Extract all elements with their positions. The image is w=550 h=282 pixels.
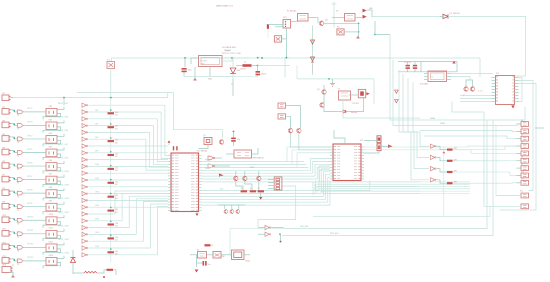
svg-text:10k: 10k [115, 181, 118, 183]
wire signal line 10 [88, 165, 168, 167]
wire JP10 out [11, 218, 17, 220]
svg-text:74: 74 [17, 142, 19, 144]
svg-text:JP14: JP14 [2, 265, 6, 267]
svg-text:CH2: CH2 [95, 110, 98, 112]
connector JP12 [2, 244, 9, 250]
svg-text:10k: 10k [115, 167, 118, 169]
resistor R4 [108, 154, 115, 156]
connector X10 right [521, 173, 529, 178]
svg-text:4k7: 4k7 [115, 128, 118, 130]
svg-text:JP3: JP3 [2, 120, 5, 122]
connector SV1 3-pin [283, 20, 291, 29]
gate G7a [17, 178, 22, 182]
svg-text:X11: X11 [521, 179, 524, 181]
wire opto OK10 output right [58, 215, 65, 218]
wire signal line 23 [88, 254, 157, 256]
wire long right verticals x484-493 [483, 112, 485, 205]
transistor Q4 [319, 21, 323, 25]
resistor R8 [108, 210, 115, 212]
resistor R20 [241, 190, 248, 192]
wire K2 bottom down to junction [374, 21, 376, 35]
svg-text:4k7: 4k7 [115, 170, 118, 172]
wire long y216 to X13 [313, 206, 490, 216]
svg-text:SW: SW [222, 256, 225, 258]
resistor RR3 [447, 171, 453, 173]
svg-text:4k7: 4k7 [115, 198, 118, 200]
wire opto OK12 output right [58, 242, 65, 245]
connector JP14 bottom [2, 267, 11, 273]
wire gate to opto OK5 [24, 152, 46, 154]
wire transistors up [466, 80, 473, 86]
wire junction to right [375, 34, 390, 36]
gate G2a [17, 110, 22, 114]
wire gate to opto OK6 [24, 165, 46, 167]
wire opto OK8 return loop [43, 195, 61, 201]
svg-text:INPUT_CH23: INPUT_CH23 [58, 253, 69, 255]
capacitor C12 [406, 65, 410, 67]
crystal Y1 box [204, 138, 212, 145]
wire rail to regulator right [222, 57, 290, 59]
svg-text:OK7: OK7 [49, 174, 53, 176]
ground below S2 area [356, 35, 360, 38]
svg-text:JP11: JP11 [2, 229, 6, 231]
gate E1 bottom [265, 225, 269, 229]
svg-text:OK5: OK5 [49, 146, 53, 148]
svg-text:X2: X2 [12, 265, 14, 267]
wires transistors to resistors [236, 181, 243, 190]
svg-text:OPTO6: OPTO6 [27, 162, 32, 164]
svg-text:GND_BUS: GND_BUS [300, 226, 309, 228]
svg-text:CH6: CH6 [95, 137, 98, 139]
buffer gate B17 [82, 212, 86, 216]
wire crystal down [199, 145, 209, 149]
resistor RR2 [447, 160, 453, 162]
wire connector X4 stub [517, 130, 521, 132]
IC4 left pins [492, 77, 496, 79]
wire module loop [324, 94, 337, 112]
wire right drop x480 [479, 58, 481, 77]
connector X3 right [521, 122, 529, 127]
wire connector X8 stub [517, 160, 521, 162]
box S4 with X [274, 36, 281, 42]
connector JP6 [2, 163, 9, 169]
wire opto OK3 return loop [43, 127, 61, 133]
svg-text:JP5: JP5 [2, 147, 5, 149]
wire IC3 to DIP [451, 77, 470, 81]
wire QB down [299, 133, 330, 150]
svg-text:4k7: 4k7 [115, 254, 118, 256]
gnd arrow below IC4 [511, 106, 515, 109]
antenna/gnd symbol [330, 83, 335, 86]
svg-text:X4: X4 [521, 127, 523, 129]
IC1 left pins [168, 155, 171, 157]
svg-text:OPTO9: OPTO9 [27, 203, 32, 205]
wire gate to opto OK10 [24, 219, 46, 221]
svg-text:INPUT_CH3: INPUT_CH3 [58, 117, 68, 119]
diode D4 arrow [343, 110, 346, 113]
wire J2 drop down west [258, 186, 296, 228]
svg-text:CH22: CH22 [95, 246, 99, 248]
wires header left [268, 179, 274, 181]
gate G12a [17, 245, 22, 249]
wire JP5 out [11, 151, 17, 153]
wire bus jog up to IC2 top pins [287, 147, 330, 162]
capacitor C10 electrolytic [256, 71, 261, 73]
wire rail corner down right [285, 57, 480, 59]
wire opto OK2 output right [58, 107, 65, 110]
svg-text:INPUT_CH9: INPUT_CH9 [58, 157, 68, 159]
vcc diode bottom D6 [71, 258, 76, 263]
wire gate D4 out [437, 180, 447, 183]
resistor R2 [108, 126, 115, 128]
svg-text:JP4: JP4 [2, 134, 5, 136]
gate G8a [17, 191, 22, 195]
wire resistor RR1 to connector [453, 149, 506, 151]
svg-text:RESONATOR: RESONATOR [253, 157, 265, 160]
svg-text:74: 74 [17, 196, 19, 198]
wire JP8 out [11, 191, 17, 193]
wire bottom rail 1 [230, 228, 284, 230]
connector X13 right lower2 [521, 204, 529, 209]
svg-text:OPTO3: OPTO3 [27, 122, 32, 124]
wire regulator bottom to gnd [209, 67, 211, 77]
red arrow right of pullups [388, 145, 393, 149]
svg-text:IN OUT: IN OUT [201, 61, 209, 63]
svg-text:JP8: JP8 [2, 188, 5, 190]
transistor T3 mid [243, 176, 247, 180]
wire opto OK9 return loop [43, 208, 61, 214]
gate G11a [17, 232, 22, 236]
wire top rail right segment [258, 65, 291, 67]
connector JP10 [2, 217, 9, 223]
gnd arrow below resistors [259, 197, 262, 200]
svg-text:4k7: 4k7 [115, 184, 118, 186]
svg-text:INPUT_CH17: INPUT_CH17 [58, 212, 69, 214]
connector X11 right [521, 180, 529, 185]
wire gates A out [215, 157, 222, 159]
wire JP7 out [11, 178, 17, 180]
wire signal line 20 [88, 233, 136, 235]
wire signal line 17 [88, 213, 115, 215]
connector JP2 [2, 109, 9, 115]
wire opto OK7 return loop [43, 181, 61, 187]
inductor L1 filled [243, 64, 252, 67]
wire F3 east stub [244, 254, 250, 256]
svg-text:OK3: OK3 [49, 119, 53, 121]
wire opto OK5 output right [58, 148, 65, 151]
capacitor C18 above IC1 [176, 146, 177, 150]
wire opto OK7 output right [58, 175, 65, 178]
svg-text:K1 RELAY: K1 RELAY [287, 10, 297, 13]
optocoupler OK9 [46, 203, 57, 211]
transistor T4 mid [257, 176, 261, 180]
svg-text:1k: 1k [250, 188, 252, 190]
wire JP12 out [11, 245, 17, 247]
wire JP6 out [11, 164, 17, 166]
wire resonator left [226, 153, 234, 155]
gate G4a [17, 137, 22, 141]
wire box around IC3 top [420, 62, 422, 72]
wire D6 vertical [72, 250, 74, 258]
small box S2 with X [337, 29, 344, 35]
wire opto OK4 return loop [43, 140, 61, 146]
gate G6a [17, 164, 22, 168]
svg-text:JP13: JP13 [2, 256, 6, 258]
svg-text:74: 74 [17, 183, 19, 185]
buffer gate B6 [82, 137, 86, 141]
gate G3a [17, 124, 22, 128]
wire regulator top right to caps right [284, 58, 286, 77]
wire signal line 3 [88, 118, 157, 120]
wire connector X3 stub [517, 123, 521, 125]
wire signal line 14 [88, 193, 168, 195]
buffer gate B20 [82, 232, 86, 236]
wire X1 down to left bus rail [110, 69, 112, 98]
box F3 bottom double [232, 250, 245, 260]
optocoupler OK8 [46, 190, 57, 198]
svg-text:JP2: JP2 [2, 107, 5, 109]
svg-text:CH12: CH12 [95, 178, 99, 180]
buffer gate B10 [82, 164, 86, 168]
wire rail drop mid [63, 98, 65, 106]
wire feed connector row3 [424, 136, 521, 139]
wire signal line 18 [88, 220, 122, 222]
buffer gate B5 [82, 130, 86, 134]
fuse/jack X1 box top-left [107, 62, 115, 69]
svg-text:OK11: OK11 [49, 228, 53, 230]
wire T1 to S3 [349, 94, 358, 96]
svg-text:CH4: CH4 [95, 123, 98, 125]
svg-text:IC1 MEGA: IC1 MEGA [197, 150, 208, 153]
wire resonator right [252, 148, 259, 154]
diode marks on verticals [395, 90, 399, 93]
DIP IC4 body [496, 76, 515, 105]
wire JB1 to QA [286, 106, 301, 129]
svg-text:CH14: CH14 [95, 191, 99, 193]
svg-text:JP12: JP12 [2, 242, 6, 244]
wire signal line 21 [88, 240, 143, 242]
IC2 left pins [330, 146, 333, 148]
red arrow right of S3 [366, 92, 369, 95]
wire signal line 22 [88, 247, 150, 249]
wire opto OK13 return loop [43, 262, 61, 268]
wire signal line 7 [88, 145, 168, 147]
svg-text:4k7: 4k7 [115, 226, 118, 228]
svg-text:100uF: 100uF [261, 74, 267, 76]
wire gate to opto OK7 [24, 179, 46, 181]
svg-text:10k: 10k [115, 154, 118, 156]
svg-text:OPTO4: OPTO4 [27, 135, 32, 137]
optocoupler OK10 [46, 217, 57, 225]
gate G5a [17, 151, 22, 155]
svg-text:INPUT_CH15: INPUT_CH15 [58, 198, 69, 200]
svg-text:10k: 10k [115, 209, 118, 211]
svg-text:74: 74 [17, 264, 19, 266]
wire signal line 15 [88, 199, 168, 201]
wire opto OK2 return loop [43, 113, 61, 119]
svg-text:INPUT_CH11: INPUT_CH11 [58, 171, 69, 173]
wire JB2 to QB [286, 116, 291, 128]
svg-text:OPTO2: OPTO2 [27, 108, 32, 110]
wire regulator left pin [191, 57, 199, 59]
buffer gate B23 [82, 253, 86, 257]
wire signal line 19 [88, 227, 129, 229]
resistor R9 [108, 223, 115, 225]
wire rail vertical x64 seg [63, 98, 65, 106]
svg-text:INPUT_CH1: INPUT_CH1 [58, 103, 68, 105]
svg-text:OK13: OK13 [49, 255, 54, 257]
svg-text:PB2: PB2 [205, 168, 208, 170]
wire K2 right to gates [355, 17, 362, 19]
pullup resistor RP2 [377, 144, 381, 151]
wire JP2 out [11, 110, 17, 112]
connector JP8 [2, 190, 9, 196]
svg-text:4k7: 4k7 [115, 156, 118, 158]
wire feed connector row2 [420, 129, 521, 132]
buffer gate B21 [82, 239, 86, 243]
buffer gate B13 [82, 185, 86, 189]
gate D4 right [431, 178, 435, 182]
wire gate to opto OK2 [24, 111, 46, 113]
svg-text:PWR_BUS: PWR_BUS [330, 233, 339, 235]
opto IC3 box right [428, 71, 447, 82]
optocoupler OK12 [46, 244, 57, 252]
svg-text:22p: 22p [237, 139, 240, 141]
transistor Q6 [464, 87, 468, 91]
gate G9a [17, 205, 22, 209]
wire JP3 out [11, 123, 17, 125]
wire JP1 to rail [11, 97, 13, 99]
diode arrow D5 [363, 9, 367, 13]
vcc tri at chain bottom [311, 60, 314, 63]
wire vertical x399-413 group [398, 70, 400, 132]
optocoupler OK7 [46, 176, 57, 184]
wire opto OK3 output right [58, 120, 65, 123]
buffer gate B11 [82, 171, 86, 175]
svg-text:CH16: CH16 [95, 205, 99, 207]
svg-text:OPTO8: OPTO8 [27, 189, 32, 191]
resistor R5 [108, 168, 115, 170]
svg-text:X10: X10 [521, 171, 524, 173]
resistor R10 [108, 237, 115, 239]
svg-text:OPTO10: OPTO10 [27, 217, 33, 219]
svg-text:CH18: CH18 [95, 219, 99, 221]
svg-text:100n: 100n [188, 70, 192, 72]
diode chain below K1 [312, 26, 314, 76]
wire module down to bus [343, 99, 420, 118]
wire Q4 east to gnd stem [324, 22, 359, 24]
svg-text:OPTO5: OPTO5 [27, 149, 32, 151]
wire vertical bus x390 [390, 35, 525, 121]
wire JP9 out [11, 205, 17, 207]
resistor R22 [258, 190, 265, 192]
connector X4 right [521, 129, 529, 134]
wire D1 right then down x525 [448, 16, 526, 69]
buffer gate B15 [82, 198, 86, 202]
svg-text:4k7: 4k7 [115, 240, 118, 242]
transistor trio T5 [224, 209, 240, 213]
svg-text:X12: X12 [520, 191, 523, 193]
svg-text:MAIN BOARD rev2: MAIN BOARD rev2 [216, 5, 234, 8]
svg-text:OPTO7: OPTO7 [27, 176, 32, 178]
svg-text:INPUT_CH13: INPUT_CH13 [58, 185, 69, 187]
wire gate to opto OK4 [24, 138, 46, 140]
svg-text:10u: 10u [208, 264, 211, 266]
vertical wire from top edge x334 [333, 2, 335, 28]
wire opto OK12 return loop [43, 249, 61, 255]
svg-text:PB0/TX: PB0/TX [205, 159, 212, 161]
buffer gate B1 [82, 103, 86, 107]
wire regulator output row [222, 58, 232, 61]
IC2 body [333, 144, 361, 181]
red dot right gates [443, 152, 445, 154]
transistor Q5 above IC1 [219, 140, 223, 144]
connector X6 right [521, 144, 529, 149]
zigzag resistor R13 [84, 271, 97, 273]
capacitor C16 left of SV1 [267, 24, 269, 29]
wire connector X9 stub [517, 167, 521, 169]
svg-text:OK8: OK8 [49, 187, 53, 189]
vcc arrow above IC3 [452, 61, 455, 64]
svg-text:OPTO13: OPTO13 [27, 257, 33, 259]
svg-text:OK4: OK4 [49, 133, 53, 135]
wire S2 right then down gnd [344, 31, 359, 33]
wire signal line 9 [88, 159, 168, 161]
wire C15 [197, 262, 203, 264]
svg-text:1N4148: 1N4148 [351, 112, 358, 114]
gate G13a [17, 259, 22, 263]
wire opto OK10 return loop [43, 222, 61, 228]
svg-text:D1 1N4004: D1 1N4004 [450, 13, 461, 15]
svg-text:100uH: 100uH [240, 69, 246, 71]
svg-text:4k7: 4k7 [115, 115, 118, 117]
connector JP3 [2, 122, 9, 128]
wire JP4 out [11, 137, 17, 139]
buffer gate B16 [82, 205, 86, 209]
svg-text:INPUT_CH19: INPUT_CH19 [58, 225, 69, 227]
wire signal line 11 [88, 172, 168, 174]
transistor QA [288, 129, 292, 133]
wire IC4 to far right vertical [519, 81, 534, 191]
svg-text:74: 74 [17, 223, 19, 225]
wire mid bus lines [202, 161, 305, 163]
wire gate to opto OK8 [24, 192, 46, 194]
wire opto OK6 return loop [43, 168, 61, 174]
voltage regulator IC5 box [199, 56, 223, 67]
svg-text:CH20: CH20 [95, 232, 99, 234]
resistor R23 bottom [205, 244, 211, 246]
wire gates shared vertical [443, 146, 445, 216]
relay K2 box [345, 14, 356, 22]
wire resistor RR2 to connector [453, 160, 508, 162]
wire JP13 out [11, 259, 17, 261]
wire opto OK6 output right [58, 161, 65, 164]
IC1 right pins [199, 155, 202, 157]
svg-text:PD4: PD4 [220, 188, 223, 190]
wire resistor RR3 to connector [453, 171, 511, 173]
buffer gate B14 [82, 191, 86, 195]
wire x525 into IC area [515, 69, 526, 76]
box S3 [358, 89, 365, 97]
wire opto OK9 output right [58, 202, 65, 205]
wire gnd rail extend [210, 76, 233, 78]
resistor R6 [108, 182, 115, 184]
svg-text:X7: X7 [521, 149, 523, 151]
svg-text:4k7: 4k7 [115, 142, 118, 144]
svg-text:VOLTAGE REG: VOLTAGE REG [222, 46, 236, 49]
svg-text:INPUT_CH21: INPUT_CH21 [58, 239, 69, 241]
capacitor C15 bottom [203, 261, 205, 266]
